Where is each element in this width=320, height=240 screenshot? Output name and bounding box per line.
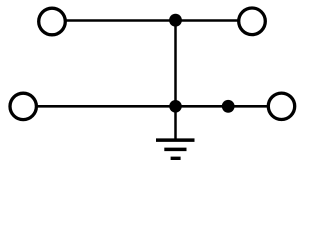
wire (top bus)	[66, 19, 238, 22]
wire (bottom bus)	[37, 105, 268, 108]
ground (PE symbol, bar 3)	[171, 157, 181, 160]
ground (PE symbol, bar 2)	[164, 148, 186, 152]
junction (bottom bus / bridge)	[169, 100, 182, 113]
junction (bottom bus right tap)	[222, 100, 235, 113]
ground (PE symbol, bar 1)	[156, 138, 195, 142]
terminal circle (bottom left clamp point)	[10, 93, 36, 119]
terminal circle (bottom right clamp point)	[268, 93, 294, 119]
terminal circle (top right clamp point)	[239, 8, 266, 35]
wire (vertical bridge to ground)	[174, 20, 177, 140]
terminal circle (top left clamp point)	[39, 8, 66, 35]
junction (top bus / bridge)	[169, 14, 182, 27]
